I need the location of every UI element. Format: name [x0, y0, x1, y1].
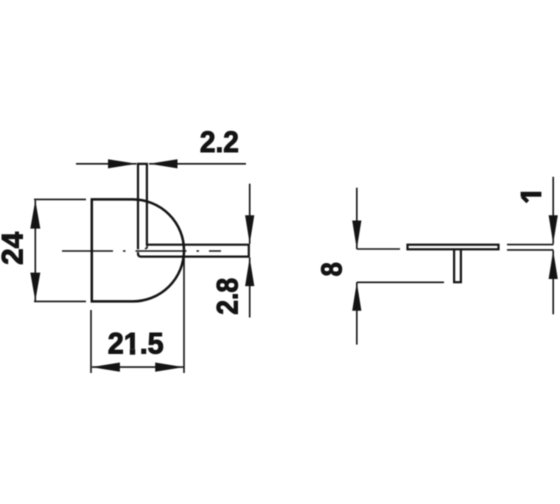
pin right edge stub below tab top — [145, 245, 147, 249]
side view plate — [408, 245, 499, 250]
svg-text:8: 8 — [317, 262, 349, 276]
dimension 8 extension lines — [357, 249, 444, 282]
dimension 21.5 extension lines — [91, 258, 184, 373]
dimension 1 lines — [552, 177, 554, 314]
dimension 8 lines — [356, 188, 358, 345]
centerline — [62, 250, 221, 252]
dimension 24 extension lines — [34, 199, 86, 301]
svg-text:24: 24 — [0, 232, 30, 265]
dimension 21.5 arrows — [91, 363, 183, 372]
dimension 1 arrows — [549, 215, 558, 279]
side view pin — [454, 247, 461, 282]
dimension 1 extension lines — [507, 245, 554, 250]
svg-text:2.8: 2.8 — [211, 278, 244, 315]
remove foot serif of digit 1 in 21.5 — [125, 349, 141, 355]
halo gap on pin left edge at centerline — [136, 249, 140, 252]
dimension 2.2 arrows — [108, 159, 178, 168]
pin and tab L-profile — [138, 164, 249, 257]
dimension 21.5 line — [92, 366, 183, 368]
dimension 8 arrows — [352, 221, 361, 311]
dimension 2.8 arrows — [245, 215, 254, 286]
dimension 1 label (drawn, target glyph has no foot serif) — [521, 192, 542, 202]
dimension 2.2 line — [76, 163, 246, 165]
svg-text:2.2: 2.2 — [200, 126, 239, 159]
dimension 2.8 lines — [249, 184, 251, 318]
dimension 24 line — [34, 200, 36, 301]
body D outline — [92, 199, 184, 301]
dimension 24 arrows — [30, 200, 40, 301]
